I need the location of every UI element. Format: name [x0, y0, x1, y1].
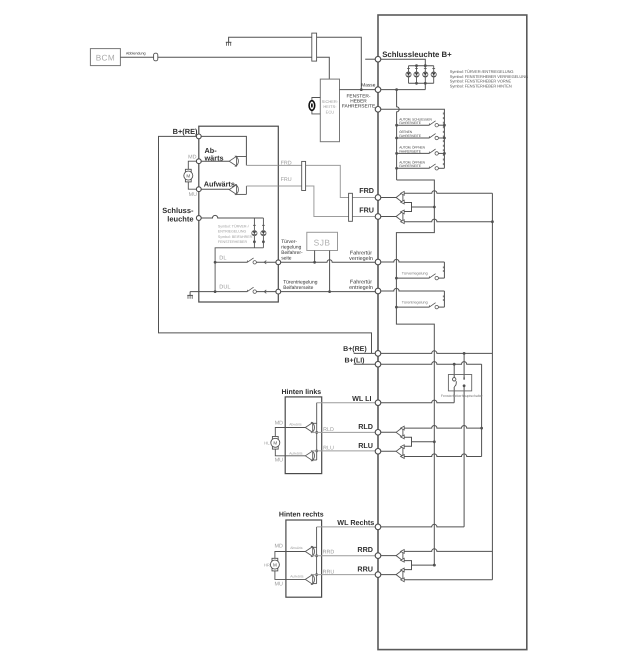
label Fahrertuer entriegeln — [349, 280, 373, 292]
wire BCM Abblendung to Sicherheits-ECU — [120, 57, 329, 79]
label RRU gray — [323, 570, 335, 576]
connector DL out — [276, 260, 281, 265]
svg-text:ECU: ECU — [326, 109, 335, 114]
label MD rechts — [275, 544, 283, 550]
switch contact Fensterheberhauptschalter left — [453, 378, 457, 387]
svg-text:MD: MD — [275, 421, 283, 427]
bus E right side — [491, 193, 493, 580]
label symbol list — [450, 69, 528, 88]
svg-text:MU: MU — [275, 581, 283, 587]
box Fensterheberhauptschalter — [448, 375, 471, 391]
wire DUL row with ground — [190, 287, 278, 293]
connector Fahrertuer entriegeln master box — [375, 288, 381, 294]
wire B+(LI) inside — [378, 362, 483, 457]
wire FRU inside driver unit — [246, 185, 278, 187]
svg-text:Türentriegelung: Türentriegelung — [402, 301, 428, 305]
label Schlussleuchte B+ — [382, 50, 452, 59]
switch contact Fensterheberhauptschalter right tick — [463, 377, 465, 379]
wire RRD/RRU upper rail — [404, 549, 492, 552]
svg-text:WL LI: WL LI — [352, 394, 371, 403]
label B+(RE) left — [173, 127, 198, 136]
svg-text:Abwärts: Abwärts — [289, 423, 302, 427]
svg-text:FENSTER-: FENSTER- — [347, 94, 371, 100]
wire B+(RE) to rail — [199, 136, 247, 165]
wire FRD/FRU lower line — [378, 216, 396, 218]
switch S2 &#214;FFNEN — [397, 130, 445, 140]
wire SJB leg 1 — [314, 251, 316, 263]
label Abwaerts rechts — [290, 546, 303, 550]
label FRU black — [359, 205, 374, 214]
drive arrow links aufwaerts — [305, 451, 314, 462]
in-line connector J3 — [349, 193, 353, 221]
svg-text:RLU: RLU — [323, 446, 334, 452]
connector WL Rechts master box — [375, 524, 381, 530]
svg-text:seite: seite — [281, 256, 292, 262]
svg-text:entriegeln: entriegeln — [349, 285, 373, 291]
motor HR — [270, 558, 279, 571]
label FRU gray — [281, 177, 292, 183]
label B+(LI) — [344, 356, 364, 364]
connector FRU master box — [375, 214, 381, 220]
bus A Masse to driver switches — [395, 90, 399, 180]
ECU BCM body control module — [90, 49, 120, 66]
connector MU driver — [196, 187, 201, 192]
label B+(RE) right — [343, 345, 367, 353]
svg-text:FAHRERSEITE: FAHRERSEITE — [399, 134, 422, 138]
label RLD gray — [323, 427, 334, 433]
label MD driver — [188, 155, 196, 161]
drive arrow driver abwaerts — [229, 156, 246, 167]
label Aufwaerts links — [289, 451, 302, 455]
svg-text:Türverriegelung: Türverriegelung — [402, 272, 428, 276]
wire Fahrertuer entriegeln rail — [378, 288, 444, 307]
connector Fahrertuer verriegeln master box — [375, 259, 381, 265]
svg-text:MD: MD — [275, 544, 283, 550]
svg-text:HEBER: HEBER — [350, 99, 367, 105]
wire FRD/FRU bottom rail — [404, 219, 492, 222]
rail Hinten links — [312, 403, 319, 460]
svg-text:Türver-: Türver- — [281, 239, 297, 245]
wire WL LI inside — [378, 400, 454, 403]
wire RLD/RLU bottom rail — [404, 454, 481, 457]
label Schluss-leuchte — [162, 206, 194, 224]
svg-text:B+(RE): B+(RE) — [343, 345, 367, 353]
svg-text:Symbol: FENSTERHEBER HINTEN: Symbol: FENSTERHEBER HINTEN — [450, 83, 512, 88]
transistor drive arrow RLD/RLU1 — [396, 426, 404, 439]
wire B+(LI) stub — [354, 363, 378, 365]
connector Schlussleuchte driver — [196, 216, 201, 221]
label Hinten rechts — [279, 510, 324, 518]
svg-text:SJB: SJB — [314, 238, 331, 248]
label DL — [219, 255, 226, 261]
wire FRU gray from door unit — [278, 186, 378, 217]
label MU rechts — [275, 581, 283, 587]
wire ground to Masse — [229, 37, 362, 89]
svg-text:RLD: RLD — [358, 422, 373, 431]
wire RRU gray — [312, 574, 379, 576]
wire MD driver — [199, 160, 229, 162]
svg-text:verriegeln: verriegeln — [349, 256, 373, 262]
svg-text:B+(LI): B+(LI) — [344, 356, 364, 364]
wire Schlussleuchte B+ stub — [365, 58, 378, 60]
wire DL to Fahrertuer verriegeln — [281, 260, 378, 264]
connector B+(RE) driver — [196, 134, 201, 139]
drive arrow rechts abwaerts — [305, 546, 314, 557]
label MD links — [275, 421, 283, 427]
wire RLD/RLU lower line — [378, 450, 396, 452]
svg-text:HL: HL — [264, 441, 270, 446]
label Fahrertuer verriegeln — [349, 250, 373, 262]
connector FRD master box — [375, 195, 381, 201]
label RRU black — [357, 564, 373, 573]
label RLU gray — [323, 446, 334, 452]
svg-text:FAHRERSEITE: FAHRERSEITE — [399, 121, 422, 125]
wire FRD gray from door unit — [278, 165, 378, 197]
illumination LED block rails — [409, 64, 434, 84]
svg-text:RRD: RRD — [357, 545, 373, 554]
junction dot FRU bottom rail to bus E — [491, 220, 494, 223]
label HR — [264, 562, 270, 567]
symbol text in driver unit — [218, 225, 254, 244]
wire RRD/RRU lower line — [378, 574, 396, 576]
label Masse — [361, 83, 375, 89]
wire FRD/FRU upper line — [378, 197, 396, 199]
svg-text:Schlussleuchte B+: Schlussleuchte B+ — [382, 50, 452, 59]
connector RLD master box — [375, 430, 381, 436]
connector DUL out — [276, 289, 281, 294]
svg-text:Symbol: TÜRVER-/: Symbol: TÜRVER-/ — [218, 225, 249, 229]
wire RRD gray — [312, 555, 379, 557]
svg-text:Türentriegelung: Türentriegelung — [283, 280, 318, 286]
wire LED pair bottom to DL/DUL bus — [214, 248, 264, 293]
svg-text:FRD: FRD — [359, 186, 374, 195]
wire LED block to Masse — [424, 83, 426, 89]
label FRD gray — [281, 160, 292, 166]
wire MU driver — [199, 188, 229, 190]
label Hinten links — [282, 388, 322, 396]
wire RRU bottom rail turn — [433, 564, 436, 567]
transistor drive arrow RRD/RRU1 — [396, 550, 404, 563]
box Hinten links unit — [285, 397, 322, 474]
drive arrow rechts aufwaerts — [305, 574, 314, 585]
wire SJB leg 2 — [329, 251, 331, 292]
svg-text:RRD: RRD — [323, 549, 335, 555]
svg-text:ENTRIEGELUNG: ENTRIEGELUNG — [218, 229, 247, 233]
svg-text:Hinten links: Hinten links — [282, 388, 322, 396]
svg-text:Masse: Masse — [361, 83, 375, 89]
svg-text:FRD: FRD — [281, 160, 292, 166]
label Abwaerts driver — [204, 146, 224, 162]
svg-text:FRU: FRU — [281, 177, 292, 183]
svg-text:Symbol: BEIFAHRER-: Symbol: BEIFAHRER- — [218, 235, 254, 239]
svg-text:leuchte: leuchte — [167, 215, 193, 224]
connector B+(RE) master box — [375, 351, 381, 357]
connector Schlussleuchte B+ master box — [375, 56, 381, 62]
box driver door window unit — [199, 126, 278, 302]
wire WL Rechts — [317, 526, 378, 528]
wire WL Rechts inside — [378, 524, 464, 527]
svg-text:BCM: BCM — [96, 53, 115, 62]
wire MD Hinten links + motor — [275, 428, 305, 456]
svg-text:Beifahrerseite: Beifahrerseite — [283, 285, 313, 291]
connector RRU master box — [375, 572, 381, 578]
svg-text:FAHRERSEITE: FAHRERSEITE — [399, 164, 422, 168]
lamp L6 driver — [261, 225, 266, 248]
switch S6 Tuerentriegelung — [396, 301, 444, 309]
wire FRD inside driver unit — [246, 164, 278, 166]
svg-text:MD: MD — [188, 155, 196, 161]
svg-text:MU: MU — [275, 457, 283, 463]
wire RRD/RRU bottom rail — [404, 579, 492, 581]
label Tuerentriegelung Beifahrerseite — [283, 280, 318, 292]
svg-text:HR: HR — [264, 562, 270, 567]
wire RRD/RRU bracket — [404, 561, 436, 570]
svg-text:DUL: DUL — [219, 285, 230, 291]
motor HL — [271, 437, 280, 450]
bus F window lock right — [463, 353, 466, 527]
svg-text:FAHRERSEITE: FAHRERSEITE — [399, 149, 422, 153]
drive arrow links abwaerts — [305, 422, 314, 433]
switch S3 AUTOM. &#214;FFNEN — [397, 146, 445, 156]
label Abblendung — [126, 52, 146, 56]
label HL — [264, 441, 270, 446]
connector RLU master box — [375, 449, 381, 455]
rail Hinten rechts — [312, 527, 319, 584]
ground G2 driver unit — [187, 292, 193, 299]
label RLU black — [358, 441, 373, 450]
label RRD black — [357, 545, 373, 554]
svg-text:Aufwärts: Aufwärts — [290, 575, 303, 579]
svg-text:riegelung: riegelung — [281, 245, 301, 251]
svg-text:Aufwärts: Aufwärts — [289, 451, 302, 455]
mechanical link dashes driver switches — [442, 113, 444, 167]
wire DUL to Fahrertuer entriegeln — [281, 290, 378, 293]
wire MD Hinten rechts + motor — [275, 552, 305, 580]
wire B+(RE) outer loop — [159, 136, 379, 353]
lamp L4 Schlussleuchte — [431, 66, 436, 84]
transistor drive arrow RRD/RRU2 — [396, 568, 404, 582]
box SJB — [307, 232, 338, 250]
svg-text:RRU: RRU — [357, 564, 373, 573]
connector WL LI master box — [375, 400, 381, 406]
svg-text:FENSTERHEBER: FENSTERHEBER — [218, 240, 248, 244]
switch DL — [215, 258, 278, 264]
buzzer component at Sicherheits-ECU — [309, 98, 320, 114]
wire Schlussleuchte feed — [199, 215, 264, 230]
svg-text:M: M — [273, 562, 277, 567]
wire motor loop driver — [188, 161, 199, 189]
transistor drive arrow RLD/RLU2 — [396, 445, 404, 459]
label FRD black — [359, 186, 374, 195]
svg-text:Abwärts: Abwärts — [290, 546, 303, 550]
wire Fensterheber Fahrerseite rail — [378, 109, 446, 168]
lamp L3 Schlussleuchte — [423, 66, 428, 84]
label WL LI — [352, 394, 371, 403]
in-line connector J1 (top) — [312, 33, 317, 61]
label RRD gray — [323, 549, 335, 555]
label MU links — [275, 457, 283, 463]
switch S4 AUTOM. &#214;FFNEN — [397, 160, 445, 170]
label Tuerver-riegelung Beifahrer-seite — [281, 239, 303, 262]
lamp L1 Schlussleuchte — [406, 66, 411, 84]
svg-text:RLU: RLU — [358, 441, 373, 450]
svg-text:M: M — [273, 441, 277, 446]
label MU driver — [189, 192, 197, 198]
ground G1 top — [226, 42, 232, 46]
transistor drive arrow FRD/FRU1 — [396, 191, 404, 204]
wire RLD gray — [312, 431, 379, 433]
connector RRD master box — [375, 553, 381, 559]
svg-text:WL Rechts: WL Rechts — [337, 518, 374, 527]
label Aufwaerts driver — [204, 180, 235, 189]
svg-text:M: M — [186, 173, 190, 178]
switch S1 AUTOM. SCHLIESSEN — [397, 117, 445, 127]
svg-text:Fensterheberhauptschalter: Fensterheberhauptschalter — [441, 394, 484, 398]
svg-text:FRU: FRU — [359, 205, 374, 214]
wire FRD/FRU bracket — [404, 203, 436, 212]
lamp L5 driver — [252, 225, 257, 248]
motor M driver — [184, 169, 193, 182]
connector B+(LI) master box — [375, 361, 381, 367]
label WL Rechts — [337, 518, 374, 527]
wire Masse line — [340, 88, 426, 91]
svg-text:Schluss-: Schluss- — [162, 206, 194, 215]
switch S5 Tuerverriegelung — [396, 272, 444, 280]
label DUL — [219, 285, 230, 291]
svg-text:DL: DL — [219, 255, 226, 261]
svg-text:Hinten rechts: Hinten rechts — [279, 510, 324, 518]
label Fensterheberhauptschalter — [441, 394, 484, 398]
bus G window lock left / WL LI — [453, 364, 455, 403]
label Abwaerts links — [289, 423, 302, 427]
wire RLU gray — [312, 450, 379, 452]
svg-text:FAHRERSEITE: FAHRERSEITE — [342, 104, 375, 110]
connector bead on BCM wire — [154, 53, 158, 61]
wire WL LI — [317, 402, 378, 404]
label Aufwaerts rechts — [290, 575, 303, 579]
transistor drive arrow FRD/FRU2 — [396, 210, 404, 224]
wire Schlussleuchte B+ into LED block — [378, 59, 425, 65]
ECU Sicherheits-ECU — [320, 79, 339, 142]
wire FRD/FRU upper rail — [404, 191, 492, 194]
svg-text:Aufwärts: Aufwärts — [204, 180, 235, 189]
wire Fahrertuer verriegeln rail — [378, 259, 444, 278]
svg-text:RLD: RLD — [323, 427, 334, 433]
bus B driver switches to arrows — [395, 180, 434, 565]
connector FH Fahrerseite master box — [375, 107, 381, 113]
svg-text:RRU: RRU — [323, 570, 335, 576]
svg-text:MU: MU — [189, 192, 197, 198]
connector MD driver — [196, 159, 201, 164]
svg-text:Abblendung: Abblendung — [126, 52, 146, 56]
wire RLD/RLU bracket — [404, 437, 436, 446]
svg-text:B+(RE): B+(RE) — [173, 127, 198, 136]
in-line connector J2 — [302, 161, 306, 190]
svg-text:Beifahrer-: Beifahrer- — [281, 250, 303, 256]
wire B+(RE) inside — [378, 351, 492, 355]
wire RLD/RLU upper rail — [404, 426, 481, 429]
lamp L2 Schlussleuchte — [414, 66, 419, 84]
label FENSTER-HEBER FAHRERSEITE — [342, 94, 375, 110]
label RLD black — [358, 422, 373, 431]
ECU master window switch unit (big box) — [378, 15, 527, 650]
drive arrow driver aufwaerts — [229, 184, 246, 195]
box Hinten rechts unit — [286, 520, 322, 597]
wire RLD/RLU upper line — [378, 431, 396, 433]
connector Masse master box — [375, 87, 381, 93]
wire RRD/RRU upper line — [378, 555, 396, 557]
